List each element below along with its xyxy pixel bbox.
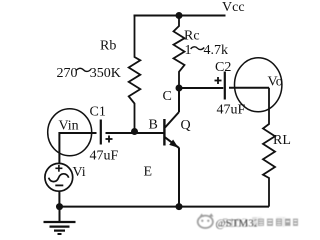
transistor Q1 base bar bbox=[163, 119, 165, 146]
watermark logo and text bbox=[198, 213, 299, 230]
source Vi circle bbox=[45, 163, 73, 191]
wire C2 to RL bbox=[229, 87, 269, 89]
transistor Q1 collector diagonal bbox=[165, 112, 179, 128]
source Vi plus bbox=[55, 165, 62, 172]
svg-text:B: B bbox=[149, 118, 158, 133]
resistor RL bbox=[263, 88, 275, 207]
resistor Rc bbox=[174, 16, 185, 89]
svg-text:E: E bbox=[144, 165, 153, 180]
svg-text:4.7k: 4.7k bbox=[204, 43, 229, 58]
svg-text:Rb: Rb bbox=[100, 39, 116, 54]
wire top rail bbox=[134, 15, 226, 17]
svg-text:RL: RL bbox=[273, 133, 291, 148]
svg-text:Rc: Rc bbox=[184, 29, 200, 44]
source Vi minus bbox=[55, 184, 63, 186]
svg-text:1: 1 bbox=[185, 43, 192, 58]
wire collector vertical bbox=[178, 88, 180, 112]
svg-text:350K: 350K bbox=[90, 66, 121, 81]
annotation circle Vo bbox=[235, 58, 282, 112]
value 1~4.7k bbox=[185, 43, 229, 58]
svg-text:Vcc: Vcc bbox=[222, 0, 245, 15]
svg-text:@STM32: @STM32 bbox=[216, 218, 260, 230]
node C junction (Rc / collector / C2) bbox=[176, 85, 183, 92]
wire bottom rail bbox=[60, 206, 270, 208]
svg-text:47uF: 47uF bbox=[217, 103, 246, 118]
wire emitter vertical bbox=[178, 148, 180, 207]
node emitter junction bbox=[176, 203, 183, 210]
transistor Q1 emitter diagonal bbox=[165, 137, 179, 148]
source Vi sine bbox=[49, 174, 69, 182]
svg-text:270: 270 bbox=[57, 66, 78, 81]
polarity + of C1 bbox=[106, 136, 113, 143]
node top junction (Vcc rail / Rc) bbox=[176, 12, 183, 19]
svg-text:Vi: Vi bbox=[73, 165, 86, 180]
wire collector node to C2 bbox=[179, 87, 223, 89]
svg-text:Vin: Vin bbox=[59, 119, 79, 134]
annotation circle Vin bbox=[48, 109, 92, 156]
svg-text:C2: C2 bbox=[215, 60, 231, 75]
capacitor C1 bbox=[100, 120, 102, 145]
svg-text:Q: Q bbox=[181, 118, 191, 133]
wire C1 to base bbox=[106, 132, 164, 134]
ground symbol bbox=[44, 207, 76, 234]
resistor Rb bbox=[129, 16, 141, 131]
node ground junction bbox=[56, 203, 63, 210]
value 270~350K bbox=[57, 66, 121, 81]
transistor Q1 emitter arrow bbox=[169, 140, 178, 148]
svg-text:Vo: Vo bbox=[268, 75, 283, 90]
svg-text:47uF: 47uF bbox=[90, 149, 119, 164]
capacitor C2 bbox=[224, 72, 226, 100]
svg-text:C1: C1 bbox=[90, 105, 106, 120]
polarity + of C2 bbox=[215, 77, 222, 84]
svg-text:C: C bbox=[163, 89, 172, 104]
node B junction (Rb / base wire) bbox=[131, 128, 138, 135]
wire Vin corner to C1 bbox=[59, 133, 96, 164]
wire Vi to ground node bbox=[58, 191, 60, 207]
